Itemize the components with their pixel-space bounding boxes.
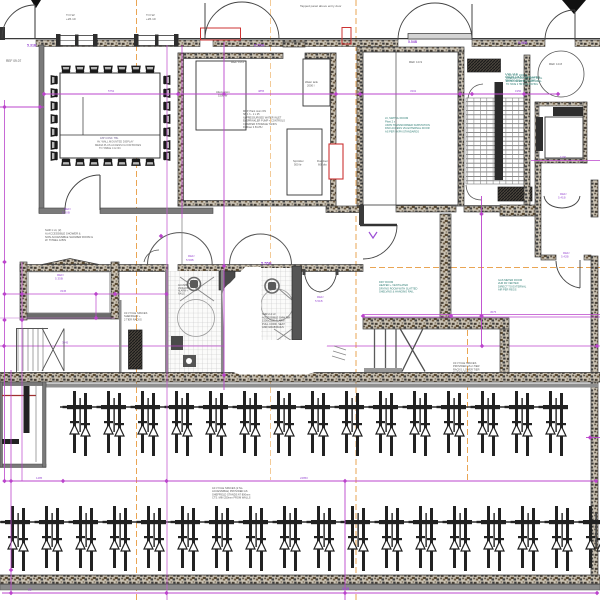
window W2 (134, 34, 179, 47)
bike pair row2 #2 (35, 506, 65, 571)
locker room inner (29, 272, 110, 313)
chair right 6 (163, 141, 169, 149)
wall bottom hatched (0, 575, 600, 584)
dim double lines y314-317 right (363, 315, 600, 318)
chair left 2 (51, 89, 57, 97)
svg-text:RAILS: RAILS (178, 292, 185, 295)
bike pair row1 #1 (63, 391, 93, 456)
svg-text:Sprinkler: Sprinkler (293, 159, 304, 163)
dim line y318 left (0, 317, 115, 319)
dim tick right y437 (586, 437, 600, 439)
dim vline x22 (21, 262, 23, 481)
bike pair row1 #13 (471, 391, 501, 456)
svg-text:3345: 3345 (62, 341, 69, 345)
wall plantroom left (178, 53, 184, 206)
svg-text:Water tank: Water tank (305, 80, 319, 84)
locker room left wall (20, 262, 27, 320)
wall plantroom bottom (178, 201, 336, 207)
chair bottom 2 (76, 159, 84, 165)
wall conference bottom right segment (100, 208, 213, 214)
wall grey band below (45, 384, 598, 388)
chair top 6 (132, 66, 140, 72)
chair left 5 (51, 128, 57, 136)
bike pair row1 #3 (131, 391, 161, 456)
svg-text:5.55B: 5.55B (261, 261, 272, 266)
svg-text:5.41B: 5.41B (558, 196, 566, 200)
svg-text:5.31B: 5.31B (27, 44, 37, 48)
chair top 3 (90, 66, 98, 72)
door D4 arc top-right (545, 10, 575, 40)
wc partition1 dark (219, 271, 235, 290)
svg-text:D) Riser 4 B AHU: D) Riser 4 B AHU (243, 126, 263, 129)
bike rail row2 (0, 521, 598, 523)
svg-text:Tapped panel above entry door: Tapped panel above entry door (300, 4, 341, 8)
door D3 big arc top (398, 3, 472, 40)
svg-text:+26.10: +26.10 (66, 17, 76, 21)
bike pair row2 #16 (511, 506, 541, 571)
equipment tank2 (303, 59, 330, 106)
bike pair row2 #15 (477, 506, 507, 571)
bike pair row2 #9 (273, 506, 303, 571)
dim line elevator (531, 160, 600, 162)
dim line main horizontal y94 (44, 93, 560, 95)
svg-text:5.53B: 5.53B (518, 41, 528, 45)
wc room1 toilet (180, 277, 214, 301)
svg-text:W. TOWEL & BIN: W. TOWEL & BIN (45, 238, 66, 242)
room bl dark bar (24, 386, 30, 433)
wall plantroom top-left seg (178, 53, 283, 59)
stair main handrail bar (495, 82, 504, 180)
bike pair row1 #15 (539, 391, 569, 456)
svg-text:TO HAVE 2 HR FIRE RATING: TO HAVE 2 HR FIRE RATING (506, 83, 538, 86)
dim vline x166 (166, 45, 168, 600)
gridline GA vertical orange (136, 0, 138, 600)
wall genroom right (458, 49, 464, 206)
wc room1 fixture2 (171, 336, 183, 350)
wall stair bottom (464, 206, 500, 213)
svg-text:09: 09 (28, 588, 32, 592)
diamond 96,318 (94, 316, 99, 321)
svg-text:REF 10.2: REF 10.2 (231, 60, 244, 64)
bike pair row2 #7 (205, 506, 235, 571)
bike pair row2 #17 (545, 506, 575, 571)
svg-text:24850: 24850 (300, 476, 308, 480)
svg-text:2 TIER RACKS: 2 TIER RACKS (124, 317, 142, 321)
wc room2 tiles (in blob hole) (258, 268, 296, 340)
wall stub top-left (0, 27, 5, 40)
divider genroom (395, 52, 397, 205)
wc wall mid (221, 270, 224, 375)
door D8 lobby low (556, 260, 580, 288)
wall conference left (39, 45, 44, 213)
bike pair row2 #8 (239, 506, 269, 571)
dim vline x4.5 (4, 100, 6, 481)
chair right 5 (163, 128, 169, 136)
door D6 genroom (363, 225, 397, 259)
wc room2 toilet (265, 279, 279, 293)
door D5 conference (65, 175, 100, 210)
door D2 big arc top (205, 2, 279, 39)
stair3 diagonals (42, 328, 64, 371)
wc room1 left wall (165, 270, 169, 375)
bike pair row1 #6 (233, 391, 263, 456)
svg-text:3302: 3302 (410, 89, 417, 93)
room genroom interior (363, 52, 458, 205)
svg-text:UKPN TRANSFORMER SUBSTATION: UKPN TRANSFORMER SUBSTATION (385, 123, 430, 127)
red box R3 riser (329, 144, 343, 179)
wall top exterior line (0, 38, 600, 40)
wall plantroom door head (283, 42, 305, 47)
svg-text:1100: 1100 (560, 155, 566, 159)
wall peak triangle (42, 259, 99, 265)
svg-text:600 dia: 600 dia (318, 162, 327, 166)
bike pair row2 #4 (103, 506, 133, 571)
wall corridor bottom long (20, 265, 168, 272)
north arrow triangle top-left (31, 0, 41, 8)
bike pair row1 #2 (97, 391, 127, 456)
stair wall right (524, 55, 530, 205)
bike pair row1 #4 (165, 391, 195, 456)
chair top 5 (118, 66, 126, 72)
chair left 6 (51, 141, 57, 149)
svg-text:MEDIA PLUS ACCESS FLOOR BOXES: MEDIA PLUS ACCESS FLOOR BOXES (95, 143, 141, 147)
wc room1 tiles (168, 271, 222, 374)
wc room1 fixture3 (183, 355, 196, 367)
svg-text:ACC/SHR: ACC/SHR (178, 284, 189, 287)
svg-text:500 ltr: 500 ltr (294, 163, 302, 167)
bike pair row2 #1 (1, 506, 31, 571)
locker room bottom wall (27, 313, 111, 319)
chair right 1 (163, 76, 169, 84)
chair bottom 3 (90, 159, 98, 165)
svg-text:2000 l: 2000 l (307, 84, 315, 88)
wall grey vert x120 (119, 300, 122, 373)
chair left 7 (51, 152, 57, 160)
elevator car (545, 117, 583, 158)
bike pair row1 #5 (199, 391, 229, 456)
dim line left y107 (0, 106, 44, 108)
svg-text:REF 09.07: REF 09.07 (6, 59, 21, 63)
wall horiz above stair2 (363, 318, 509, 329)
chair bottom 7 (146, 159, 154, 165)
bike pair row2 #3 (69, 506, 99, 571)
stair arrow arc bottom (466, 185, 482, 200)
svg-text:+26.10: +26.10 (146, 17, 156, 21)
elevator door mech dark (553, 107, 583, 116)
bike pair row2 #11 (341, 506, 371, 571)
svg-text:SHR 1 x4, (2): SHR 1 x4, (2) (45, 228, 61, 232)
svg-text:1950: 1950 (515, 89, 522, 93)
door D1 arc top-left (2, 5, 35, 38)
wall vert mid-right (440, 214, 451, 324)
wall genroom bottom seg (396, 206, 456, 213)
chair top 2 (76, 66, 84, 72)
gridline GC vertical orange (355, 0, 357, 600)
room bl red line (2, 395, 36, 397)
stair2 gray bar (364, 368, 402, 372)
svg-text:1500x2255: 1500x2255 (178, 288, 190, 290)
chair right 4 (163, 115, 169, 123)
wall lobby stub (541, 255, 556, 260)
stair main top landing dark (468, 59, 501, 72)
dim line y294 locker (4, 293, 168, 295)
wall lobby stub right (584, 255, 591, 260)
table conference (60, 73, 160, 158)
chair right 3 (163, 102, 169, 110)
chair bottom 1 (62, 159, 70, 165)
door arc corridor big2 (230, 234, 292, 265)
svg-text:1485: 1485 (36, 476, 43, 480)
bike pair row2 #18 (579, 506, 600, 571)
wall corridor stub right (500, 205, 540, 216)
equipment tank3 (287, 129, 322, 195)
bike pair row2 #12 (375, 506, 405, 571)
stair2 treads (375, 329, 397, 370)
bike pair row2 #10 (307, 506, 337, 571)
svg-text:ALARM +: ALARM + (178, 290, 189, 293)
svg-text:SHELVING & HANGING RAIL: SHELVING & HANGING RAIL (379, 290, 414, 294)
door arc locker right (144, 250, 159, 262)
red box R1 on wall (201, 28, 241, 40)
bike pair row1 #9 (335, 391, 365, 456)
svg-text:3345: 3345 (60, 289, 67, 293)
svg-text:NON ACCESSIBLE SHOWER ROOM &: NON ACCESSIBLE SHOWER ROOM & (45, 235, 93, 239)
watermark white blob (223, 267, 337, 375)
wall genroom bottom stub (357, 206, 363, 213)
stair2 diagonals (400, 329, 425, 372)
bike pair row2 #13 (409, 506, 439, 571)
dim line y593 bottom (2, 592, 598, 594)
dim vline x224 over blob (223, 42, 225, 390)
wall plantroom top-right seg (305, 53, 336, 59)
wall lobby left (535, 163, 541, 257)
svg-text:5.55A: 5.55A (254, 43, 265, 48)
svg-text:AIR PER REGS: AIR PER REGS (498, 288, 517, 292)
dim vline x481 (481, 196, 483, 346)
svg-text:Plant 2 x: Plant 2 x (385, 119, 396, 123)
wall plantroom right (331, 53, 337, 206)
svg-text:5.54B: 5.54B (408, 40, 418, 44)
equipment tank1 (196, 61, 246, 130)
chair left 4 (51, 115, 57, 123)
svg-text:A) ACCESSIBLE SHOWER &: A) ACCESSIBLE SHOWER & (45, 231, 81, 235)
bike pair row2 #5 (137, 506, 167, 571)
stair arrow arc top (468, 84, 483, 98)
wc room2 circle (261, 289, 293, 321)
arrow purple door D6 (369, 232, 377, 238)
svg-text:5.51B: 5.51B (315, 299, 323, 303)
svg-text:5.42B: 5.42B (561, 255, 569, 259)
chair top 1 (62, 66, 70, 72)
wall corridor seg left of door (326, 206, 362, 213)
wall genroom top (357, 47, 464, 52)
wc partition2 dark bar (292, 266, 302, 340)
chair bottom 4 (104, 159, 112, 165)
svg-text:5.35B: 5.35B (55, 277, 63, 281)
wall right outer upper (591, 180, 598, 217)
wall top hatched band (36, 40, 200, 47)
bike pair row1 #8 (301, 391, 331, 456)
riser dark brown (129, 330, 143, 369)
wall wc top (178, 265, 363, 272)
svg-text:4855: 4855 (258, 89, 265, 93)
wall bottom grey (0, 585, 600, 591)
wall conference bottom left segment (39, 208, 65, 214)
bike pair row1 #7 (267, 391, 297, 456)
svg-text:5.30B: 5.30B (62, 211, 70, 215)
door leaf line (181, 218, 183, 265)
svg-text:18P CONF. TBL: 18P CONF. TBL (100, 136, 119, 140)
bike pair row2 #6 (171, 506, 201, 571)
svg-text:DNO ACCESS VIA EXTERNAL DOOR: DNO ACCESS VIA EXTERNAL DOOR (385, 126, 430, 130)
chair bottom 6 (132, 159, 140, 165)
chair top 7 (146, 66, 154, 72)
dim vline x96 short (95, 294, 97, 318)
bike pair row2 #14 (443, 506, 473, 571)
circle door swing REF 10.8 (538, 51, 584, 97)
elevator shaft walls (535, 102, 587, 163)
window W1 (56, 34, 98, 47)
gridline GB vertical orange faint (270, 0, 272, 480)
bike rail row1 (60, 406, 563, 408)
gray line right of band (451, 205, 500, 207)
stair3 border (16, 329, 48, 373)
note 43 slanted (332, 346, 346, 360)
stair3 left treads (18, 329, 43, 371)
wall long band above bikes (0, 373, 600, 383)
dim vline x345 (344, 481, 346, 600)
svg-text:REF 10.8: REF 10.8 (549, 62, 562, 66)
wall vert x500 down (500, 329, 509, 374)
gridline GD vertical orange short (467, 330, 469, 480)
bike pair row1 #11 (403, 391, 433, 456)
door D7 double lobby (544, 196, 580, 208)
gridline GE horizontal orange right (370, 267, 600, 269)
door arc corridor big1 (148, 233, 213, 265)
bike pair row1 #10 (369, 391, 399, 456)
chair right 2 (163, 89, 169, 97)
bike pair row1 #12 (437, 391, 467, 456)
svg-text:AV. WALL MOUNTED DISPLAY: AV. WALL MOUNTED DISPLAY (97, 139, 134, 143)
chair top 4 (104, 66, 112, 72)
svg-text:REF 10.9: REF 10.9 (409, 60, 422, 64)
door leaf closed top wall (408, 34, 472, 40)
red box R2 on wall (342, 28, 351, 45)
svg-text:4575: 4575 (490, 310, 497, 314)
svg-text:LV, SWITCH ROOM: LV, SWITCH ROOM (385, 116, 408, 120)
dim line y346 under blob (0, 345, 600, 347)
wall right outer lower (591, 256, 598, 586)
svg-text:AND GRAB RAILS: AND GRAB RAILS (262, 325, 284, 329)
locker room right wall (111, 262, 119, 319)
chair bottom 5 (118, 159, 126, 165)
room bl walls (0, 382, 46, 468)
chair left 1 (51, 76, 57, 84)
svg-text:5.50B: 5.50B (186, 258, 194, 262)
room bl inner line (35, 386, 37, 462)
svg-text:5752: 5752 (108, 89, 115, 93)
stair main bottom landing dark (498, 187, 532, 201)
room bl dark blob (2, 439, 19, 444)
north arrow triangle top-right (562, 0, 586, 14)
stair main treads (466, 98, 524, 184)
chair left 3 (51, 102, 57, 110)
svg-text:SLIDING TRAYS: SLIDING TRAYS (453, 371, 473, 375)
elevator counterweight dark (536, 117, 543, 151)
svg-text:TO TABLE 4 & NO.: TO TABLE 4 & NO. (99, 146, 121, 150)
dim line y481 full (5, 480, 596, 482)
svg-text:AS PER UKPN STANDARDS: AS PER UKPN STANDARDS (385, 130, 419, 134)
chair right 7 (163, 152, 169, 160)
dim vline x11 (10, 370, 12, 595)
svg-text:CTS. MIN 250mm FROM WALLS: CTS. MIN 250mm FROM WALLS (212, 496, 251, 500)
dim vline x182 (181, 45, 183, 218)
wc room1 circle (178, 300, 215, 337)
bike pair row1 #14 (505, 391, 535, 456)
door D9 double wc (304, 270, 337, 292)
wall genroom left (357, 49, 363, 206)
svg-text:5.1B: 5.1B (342, 587, 350, 591)
svg-text:Flue riser: Flue riser (317, 159, 328, 163)
